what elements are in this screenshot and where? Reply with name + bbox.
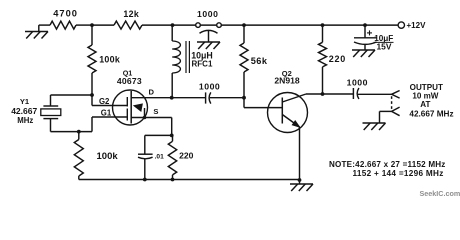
capacitor 1000 (feedthrough) [196, 9, 222, 42]
wire (bottom rail) [79, 179, 300, 181]
svg-text:42.667: 42.667 [11, 106, 37, 116]
op... transistor Q1 40673 (dual-gate MOSFET) [99, 69, 172, 125]
wire (node A to 12k) [92, 24, 114, 26]
ground (output shield) [363, 122, 386, 124]
terminal +12V [398, 21, 426, 30]
svg-text:220: 220 [179, 151, 194, 161]
svg-text:1000: 1000 [197, 9, 219, 19]
resistor 220 (collector load) [319, 25, 347, 94]
svg-text:220: 220 [329, 54, 346, 64]
resistor 220 (source bias) [168, 135, 193, 179]
node OUTPUT (coax connector) [380, 83, 454, 123]
svg-text:G2: G2 [99, 97, 110, 106]
wire (Q1 source down to bypass node) [171, 118, 173, 136]
wire (Q2 emitter to ground) [299, 127, 301, 184]
svg-text:12k: 12k [123, 9, 139, 19]
resistor 100k (upper divider) [88, 25, 120, 105]
wire (feedthrough to +12V rail) [221, 24, 398, 26]
svg-text:MHz: MHz [17, 116, 33, 125]
resistor 12k [114, 9, 142, 29]
wire (gnd to R 4700) [39, 24, 50, 26]
svg-text:1152 + 144 =1296 MHz: 1152 + 144 =1296 MHz [353, 169, 444, 178]
ground (10uF) [352, 49, 375, 51]
resistor 100k (lower divider) [74, 132, 118, 180]
svg-text:1000: 1000 [347, 77, 368, 87]
note text [329, 160, 446, 178]
crystal Y1 42.667 MHz [11, 95, 92, 132]
svg-text:S: S [153, 107, 158, 116]
wire (collector to output node) [306, 93, 353, 95]
svg-text:40673: 40673 [117, 76, 142, 86]
wire (crystal bottom to G1 branch) [51, 131, 93, 133]
node J (56k / base) [242, 96, 246, 100]
wire G2 [92, 105, 127, 107]
svg-text:G1: G1 [101, 109, 112, 118]
wire (output cap to connector) [358, 93, 392, 95]
node I (drain / RFC1) [170, 96, 174, 100]
wire (4700 to node A) [76, 24, 92, 26]
capacitor 1000 (interstage coupling) [199, 81, 220, 103]
svg-text:.01: .01 [155, 153, 164, 160]
svg-text:100k: 100k [97, 151, 119, 162]
inductor RFC1 10uH [172, 25, 213, 98]
svg-text:AT: AT [420, 100, 430, 109]
node K (220 / collector) [321, 92, 325, 96]
svg-text:RFC1: RFC1 [192, 59, 213, 68]
transistor Q2 2N918 [268, 69, 308, 132]
node H (source bypass junction) [170, 134, 174, 138]
node B (junction 12k/feedthrough/RFC1) [171, 23, 175, 27]
wire (12k to node B) [142, 24, 196, 26]
svg-text:1000: 1000 [199, 81, 220, 91]
svg-text:42.667 MHz: 42.667 MHz [409, 110, 453, 119]
svg-text:D: D [149, 88, 155, 97]
wire (coupling cap to Q2 base) [210, 97, 244, 99]
capacitor 1000 (output coupling) [347, 77, 368, 99]
svg-text:NOTE:42.667 x 27 =1152 MHz: NOTE:42.667 x 27 =1152 MHz [329, 160, 446, 169]
node C (56k tap) [242, 23, 246, 27]
ground (feedthrough capacitor) [197, 41, 220, 43]
node F (crystal top / G2) [90, 93, 94, 97]
svg-text:2N918: 2N918 [274, 75, 300, 85]
svg-text:OUTPUT: OUTPUT [410, 83, 443, 92]
svg-text:+12V: +12V [407, 21, 427, 30]
resistor 4700 [50, 8, 78, 29]
node G (100k lower tap) [77, 130, 81, 134]
svg-text:15V: 15V [377, 42, 392, 52]
wire G1 [92, 116, 127, 118]
node E (10uF tap) [363, 23, 367, 27]
ground (chassis, top-left bias return) [25, 25, 48, 38]
svg-text:100k: 100k [99, 55, 120, 65]
node M (.01 / rail) [143, 178, 147, 182]
capacitor C 10uF 15V (electrolytic) [354, 25, 394, 51]
wire (drain node to coupling cap) [172, 97, 206, 99]
node N (220 / rail) [171, 178, 175, 182]
svg-text:4700: 4700 [53, 8, 78, 18]
wire (node H to .01 cap) [145, 134, 172, 136]
ground (Q2 emitter) [290, 183, 313, 185]
resistor 56k [240, 25, 268, 98]
node A (junction 4700/12k/100k) [90, 23, 94, 27]
capacitor .01 [138, 135, 164, 179]
svg-text:SeekIC.com: SeekIC.com [420, 189, 460, 198]
node L (emitter / ground rail) [298, 178, 302, 182]
svg-text:56k: 56k [251, 56, 268, 66]
node D (220 tap) [321, 23, 325, 27]
